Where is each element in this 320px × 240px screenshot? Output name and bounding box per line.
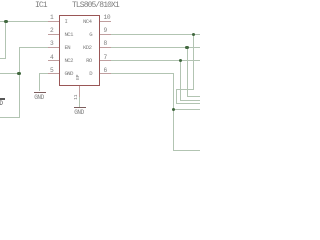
pin name G — [89, 32, 92, 38]
node junction on net row 7 — [179, 59, 183, 63]
pin name NC1 — [65, 32, 73, 38]
pin name EN — [65, 45, 71, 51]
pin name NC4 — [83, 19, 91, 25]
pin name GND — [65, 71, 73, 77]
wire net1 horizontal to pin 1 — [0, 21, 48, 22]
wire net row 9 from pin 9 to right edge — [111, 34, 200, 35]
pin 9 stub (G) — [100, 34, 111, 35]
pin number 5 — [50, 68, 53, 74]
wire net row 8 vertical at x=187 — [187, 47, 188, 97]
wire net row 9 vertical at x=176.4 — [176, 89, 177, 103]
wire net row 8 from pin 8 to right edge — [111, 47, 200, 48]
pin number 6 — [104, 68, 107, 74]
pin 7 stub (RO) — [100, 60, 111, 61]
ground symbol GND (center) label — [74, 110, 84, 116]
ground symbol GND (left) label — [34, 95, 44, 101]
pin name RO — [86, 58, 92, 64]
wire net row 6 vertical at x=173.5 — [173, 73, 174, 150]
wire net EN branch to left edge at y=73.8 — [0, 73, 19, 74]
wire GND net from pin 5 — [39, 73, 48, 74]
pin 11 stub (exposed pad, bottom) — [79, 86, 80, 97]
wire net row 6 branch exit right at y=109.6 — [173, 109, 200, 110]
pin 4 stub (NC2) — [48, 60, 59, 61]
op-amp U1 body: IC IC1 box outline — [59, 15, 100, 86]
node junction on net row 9 — [192, 33, 196, 37]
wire net EN vertical at x=19.2 — [19, 47, 20, 118]
wire net row 9 vertical at x=193.4 — [193, 34, 194, 90]
wire net row 6 from pin 6 — [111, 73, 174, 74]
IC1 reference designator label — [35, 2, 47, 10]
pin 3 stub (EN) — [48, 47, 59, 48]
node junction on net row 6 at y=109.6 — [172, 108, 176, 112]
pin number 3 — [50, 41, 53, 47]
pin name NC2 — [65, 58, 73, 64]
ground symbol GND (cut off at left edge) label — [0, 101, 3, 107]
pin 5 stub (GND) — [48, 73, 59, 74]
wire net row 9 horizontal jog left at y=89.6 — [176, 89, 194, 90]
node junction on EN net at y=73.8 — [17, 72, 21, 76]
pin number 2 — [50, 28, 53, 34]
wire net row 8 exit right at y=96.6 — [187, 96, 201, 97]
wire net row 7 from pin 7 to right edge — [111, 60, 200, 61]
pin number 8 — [104, 41, 107, 47]
pin 2 stub (NC1) — [48, 34, 59, 35]
node junction on net row 8 — [185, 46, 189, 50]
wire net row 7 vertical at x=180.5 — [180, 60, 181, 100]
ground symbol GND (left) bar — [34, 92, 46, 93]
wire pin 11 to ground — [79, 97, 80, 107]
wire net row 9 exit right at y=103.2 — [176, 103, 200, 104]
wire net EN horizontal to pin 3 — [19, 47, 48, 48]
pin 8 stub (KD2) — [100, 47, 111, 48]
wire net1 exit left at y=58.7 — [0, 58, 6, 59]
wire net EN exit left at y=117.6 — [0, 117, 20, 118]
pin number 7 — [104, 55, 107, 61]
pin 1 stub (I) — [48, 21, 59, 22]
pin name EP (bottom pad pin, rotated inside box) — [77, 75, 82, 80]
pin 10 stub (NC4) — [100, 21, 111, 22]
pin number 9 — [104, 28, 107, 34]
pin number 10 — [104, 15, 111, 21]
wire net1 vertical drop at x=5.5 — [5, 21, 6, 59]
wire GND net vertical stem — [39, 73, 40, 91]
node junction on net1 — [4, 20, 8, 24]
pin name KD2 — [83, 45, 91, 51]
pin number 4 — [50, 55, 53, 61]
pin name I — [65, 19, 68, 25]
ground symbol GND (center, below IC) bar — [74, 107, 86, 108]
pin 6 stub (D) — [100, 73, 111, 74]
wire net row 6 exit right at y=150.4 — [173, 150, 200, 151]
wire net row 7 exit right at y=100.4 — [180, 100, 200, 101]
pin number 1 — [50, 15, 53, 21]
pin name D — [89, 71, 92, 77]
IC1 value label TLS805/810X1 — [72, 2, 119, 10]
ground symbol GND (cut off at left edge) bar — [0, 98, 5, 99]
pin number 11 (rotated, bottom pin) — [75, 95, 80, 100]
